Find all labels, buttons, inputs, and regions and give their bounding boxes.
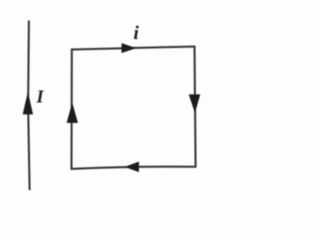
arrowhead loop current i bottom (left) xyxy=(126,162,139,171)
arrowhead loop current i right (down) xyxy=(189,95,199,112)
wire loop (square) xyxy=(72,47,196,169)
arrowhead loop current i top (right) xyxy=(122,44,135,53)
arrowhead loop current i left (up) xyxy=(67,104,77,123)
svg-text:i: i xyxy=(134,23,140,44)
svg-text:I: I xyxy=(36,87,45,107)
arrowhead current I (up) xyxy=(23,94,32,115)
wire (long straight wire carrying current I) xyxy=(28,21,30,191)
